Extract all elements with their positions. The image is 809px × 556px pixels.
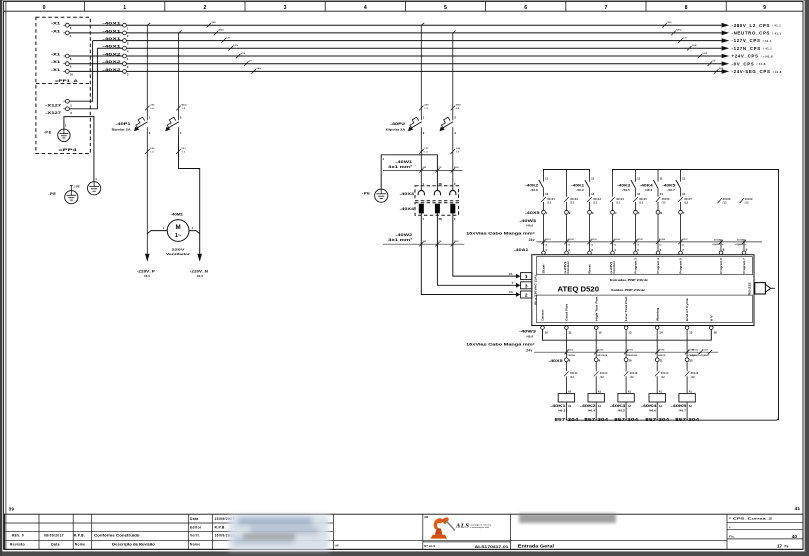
svg-text:montagens elétrica: montagens elétrica: [470, 523, 492, 526]
ground symbol PE right (wired): [88, 182, 101, 195]
wire number slashes group left (x 206-256): [207, 22, 262, 74]
svg-text:4: 4: [364, 5, 367, 11]
svg-text:40105: 40105: [637, 238, 644, 241]
cable core crossing input 2: [564, 238, 574, 246]
svg-text:40113: 40113: [630, 372, 638, 375]
svg-text:ATEQ D520: ATEQ D520: [558, 286, 600, 293]
relay coil -40K3 857-304: [610, 391, 639, 422]
svg-text:-40X1: -40X1: [102, 28, 122, 33]
svg-text:16xVias Cabo Manga mm²: 16xVias Cabo Manga mm²: [466, 231, 536, 235]
title block date / editor column: [190, 517, 235, 547]
wire tag 40103: [587, 197, 601, 210]
svg-text:12: 12: [598, 331, 602, 335]
svg-text:Entradas PNP 24Vdc: Entradas PNP 24Vdc: [610, 278, 648, 282]
block side vertical ratings text: [533, 275, 751, 305]
label -PE (enclosure): [44, 130, 52, 135]
svg-text:16xVias Cabo Manga mm²: 16xVias Cabo Manga mm²: [466, 343, 536, 347]
terminals -X127 with pin numbers: [45, 99, 72, 115]
wire bus L2 tap down to -40P2 pole 2: [453, 31, 456, 116]
ATEQ left power pin F1 (1): [509, 272, 532, 280]
terminal -40X5:3: [588, 210, 594, 251]
wire output 11 from pin to terminal: [565, 329, 567, 358]
svg-text:/40.8: /40.8: [531, 188, 539, 192]
ATEQ bottom pins 10-16: [541, 326, 717, 335]
wire tag below -40P1 pole 1: [145, 148, 155, 154]
svg-text:10: 10: [629, 358, 633, 362]
svg-text:-X127: -X127: [45, 110, 61, 115]
svg-text:40.0: 40.0: [197, 274, 203, 278]
wire tag 40114 lower: [655, 371, 669, 393]
terminal -40X5:4: [611, 210, 617, 251]
svg-text:BR/CNZA: BR/CNZA: [597, 354, 607, 357]
svg-text:40102: 40102: [568, 238, 575, 241]
ATEQ top pin 7: [679, 248, 685, 255]
svg-text:0: 0: [43, 5, 46, 11]
spare core tag 40109: [740, 198, 753, 205]
svg-text:40101: 40101: [545, 238, 552, 241]
svg-text:Nº ALS: Nº ALS: [424, 544, 435, 548]
svg-text:Program 5: Program 5: [679, 258, 683, 274]
svg-text:40116: 40116: [692, 349, 699, 352]
title block right column: [729, 517, 797, 549]
svg-text:/12: /12: [630, 376, 634, 379]
svg-text:R.P.B.: R.P.B.: [215, 526, 226, 530]
circuit breaker -40P1 pole 1 (pins 1-2): [134, 115, 151, 135]
svg-text:40104: 40104: [614, 238, 621, 241]
svg-text:40113: 40113: [627, 349, 634, 352]
svg-text:Reset: Reset: [588, 264, 592, 273]
terminal strip -40X4 (plug side): [400, 203, 459, 221]
svg-text:/40.3: /40.3: [558, 408, 566, 412]
svg-text:1.8: 1.8: [182, 108, 186, 110]
svg-text:-40X3: -40X3: [400, 192, 415, 196]
input common bus segment B (pins 4-7) to right drop: [613, 170, 779, 173]
svg-text:-40W3: -40W3: [519, 330, 536, 334]
relay return bus to right drop: [566, 417, 778, 420]
wire tag 40106: [656, 197, 670, 210]
svg-text:=PP4: =PP4: [59, 147, 78, 152]
drawing title cell: [518, 544, 554, 549]
wire right vertical drop to relay return bus: [778, 170, 780, 421]
wire tag below -40P2 pole 2: [451, 148, 461, 154]
page number 39 bottom left: [9, 506, 15, 511]
svg-text:NEU: NEU: [676, 30, 682, 32]
svg-text:2: 2: [203, 5, 206, 11]
svg-text:127: 127: [424, 148, 429, 150]
svg-text:40105: 40105: [639, 198, 647, 201]
svg-text:+24: +24: [241, 52, 246, 55]
svg-text:Conforme Construído: Conforme Construído: [94, 534, 140, 538]
relay contact -40K1 (11-14) on input 3: [571, 170, 594, 197]
svg-text:0V: 0V: [712, 61, 715, 63]
svg-text:11: 11: [591, 177, 594, 181]
svg-text:Ventilador: Ventilador: [166, 252, 191, 256]
svg-text:-40X1: -40X1: [102, 36, 122, 41]
svg-text:90 a 230VAC (1A): 90 a 230VAC (1A): [533, 275, 537, 305]
svg-text:17: 17: [777, 543, 782, 548]
svg-text:24v: 24v: [526, 349, 532, 353]
svg-text:40106: 40106: [662, 198, 670, 201]
svg-text:380: 380: [212, 22, 217, 24]
title block revision row texts: [10, 534, 155, 547]
svg-text:11: 11: [637, 177, 640, 181]
arrow -220V_N going down: [190, 254, 209, 278]
ATEQ left power pin F0 (2): [509, 290, 532, 298]
cable core crossing input 1: [541, 238, 551, 246]
svg-text:14: 14: [682, 192, 686, 196]
svg-text:Descrição da Revisão: Descrição da Revisão: [112, 543, 155, 547]
wire input common 4 from bus: [612, 170, 614, 197]
svg-text:Start: Start: [542, 264, 546, 273]
svg-text:13: 13: [628, 331, 632, 335]
svg-text:40117: 40117: [702, 349, 709, 352]
input pin function labels (vertical): [542, 258, 747, 274]
svg-text:11: 11: [660, 177, 663, 181]
wire -40P2 pole 2 down to -40X3:2: [452, 135, 454, 186]
svg-text:14: 14: [545, 192, 549, 196]
svg-text:Fls.: Fls.: [729, 535, 735, 539]
relay coil -40K4 857-304: [641, 391, 670, 422]
svg-text:-40K5: -40K5: [662, 183, 675, 187]
svg-text:Program 6: Program 6: [719, 258, 723, 274]
svg-text:/12: /12: [745, 202, 749, 205]
svg-text:(+24V): (+24V): [609, 262, 613, 274]
svg-text:-PE: -PE: [48, 191, 56, 196]
svg-text:Entrada Geral: Entrada Geral: [518, 544, 554, 549]
svg-text:-40X2: -40X2: [102, 59, 122, 64]
svg-text:0 V: 0 V: [709, 315, 713, 321]
svg-text:-220V_P: -220V_P: [137, 270, 156, 274]
svg-text:14: 14: [591, 192, 595, 196]
cable -40W3 line (output side): [534, 351, 718, 353]
svg-text:/12: /12: [616, 202, 620, 205]
svg-text:-PE: -PE: [362, 191, 370, 196]
svg-text:VERDE: VERDE: [567, 355, 575, 357]
svg-text:RS-232: RS-232: [748, 282, 752, 296]
svg-text:/12: /12: [691, 376, 695, 379]
wire tag 40112 lower: [594, 371, 608, 393]
wire -40P1 pole 2 down, jog right and down to arrow -220V_N: [179, 135, 200, 254]
terminal -40X5:9: [594, 358, 600, 371]
terminal -40X5:12: [685, 358, 693, 371]
svg-text:Good Part: Good Part: [565, 304, 569, 321]
svg-text:7: 7: [604, 5, 607, 11]
wire tag above -40P1 pole 1: [145, 105, 155, 111]
svg-text:PE: PE: [439, 167, 442, 169]
circuit breaker -40P2 pole 1 (pins 1-2): [408, 115, 425, 135]
terminal strip -40X3 (socket side): [400, 182, 459, 201]
svg-text:-40A1: -40A1: [514, 248, 529, 252]
relay coil -40K1 857-304: [550, 391, 579, 422]
terminal -40X5:8: [565, 358, 571, 371]
svg-text:40107: 40107: [682, 238, 689, 241]
ground symbol PE left (stub) with label -PE: [48, 185, 80, 204]
svg-text:8: 8: [685, 5, 688, 11]
svg-text:9: 9: [763, 5, 766, 11]
terminal -PE inside =PP4 with earth symbol: [58, 129, 70, 141]
svg-text:Common: Common: [541, 309, 545, 321]
svg-text:40109: 40109: [745, 198, 753, 201]
ATEQ top pin 2: [565, 248, 571, 255]
svg-text:-40X5: -40X5: [549, 359, 563, 363]
svg-text:Verif.: Verif.: [190, 534, 200, 538]
svg-text:14: 14: [660, 192, 664, 196]
spare output core tags: [690, 349, 712, 357]
svg-text:220V: 220V: [172, 247, 185, 251]
motor -40M1 (M 1~ 220V Ventilador): [147, 213, 199, 256]
svg-text:/40.4: /40.4: [588, 408, 596, 412]
svg-text:NEU: NEU: [219, 30, 225, 32]
svg-text:39: 39: [9, 506, 15, 511]
pneumatic connector on right side of block: [755, 283, 775, 294]
ATEQ top pin 1: [542, 248, 548, 255]
label -40P1 Bipolar 2A: [112, 122, 131, 131]
terminal -40X5:10: [624, 358, 632, 371]
svg-text:Revisão: Revisão: [10, 543, 25, 547]
svg-text:/12: /12: [661, 376, 665, 379]
wire tag 40102: [564, 197, 578, 210]
bus line destination labels: [732, 23, 782, 74]
wire number slashes group right (x 664-717): [662, 22, 723, 74]
svg-text:NEU: NEU: [456, 105, 461, 107]
block titles ATEQ D520 / Entradas / Saidas: [558, 278, 649, 294]
svg-text:/12: /12: [570, 376, 574, 379]
svg-text:F1: F1: [509, 272, 513, 276]
svg-text:+24V_CPS: +24V_CPS: [732, 54, 759, 59]
svg-text:REV. 0: REV. 0: [12, 534, 24, 538]
svg-text:127: 127: [226, 37, 231, 39]
svg-text:1~: 1~: [175, 233, 181, 239]
svg-text:380: 380: [424, 105, 429, 107]
arrow -220V_P going down: [137, 254, 156, 278]
svg-text:40102: 40102: [570, 198, 578, 201]
svg-text:12N: 12N: [692, 45, 697, 47]
wire bridge pin 10 Common to pin 16 0V: [543, 329, 712, 340]
svg-text:-40W3: -40W3: [519, 219, 536, 223]
svg-text:3x1 mm²: 3x1 mm²: [388, 165, 413, 169]
svg-text:/12: /12: [723, 202, 727, 205]
wire -X127:1 to bus -127V_CPS: [69, 41, 92, 102]
wire -X127:2 to bus -127N_CPS: [69, 48, 97, 109]
svg-text:2: 2: [525, 293, 528, 299]
svg-text:-X1: -X1: [51, 51, 61, 56]
svg-text:11: 11: [545, 177, 548, 181]
terminal -40X5:2: [565, 210, 571, 251]
svg-text:40103: 40103: [591, 238, 598, 241]
svg-text:12N: 12N: [456, 148, 461, 150]
wire bus line +24V_CPS: [67, 55, 722, 57]
svg-text:3: 3: [284, 5, 287, 11]
svg-text:40108: 40108: [723, 198, 731, 201]
cable -40W3 16 vias label (input side): [466, 219, 536, 242]
svg-text:127: 127: [683, 37, 688, 39]
svg-text:T: T: [512, 281, 514, 285]
svg-text:16: 16: [714, 331, 718, 335]
wire tag 40113 lower: [624, 371, 638, 393]
cable core crossing input 4: [610, 238, 620, 246]
wire bus line -NEUTRO_CPS: [67, 32, 722, 34]
svg-text:10: 10: [545, 331, 549, 335]
svg-text:NEU: NEU: [454, 241, 459, 243]
svg-text:R.P.B.: R.P.B.: [74, 534, 85, 538]
svg-text:Low Test Part: Low Test Part: [624, 296, 628, 321]
svg-text:10: 10: [70, 72, 74, 76]
svg-text:(+24V): (+24V): [563, 262, 567, 274]
svg-text:40112: 40112: [597, 349, 604, 352]
wire -40X4:PE to ATEQ pin T: [437, 215, 516, 285]
svg-text:-40X4: -40X4: [400, 207, 416, 211]
svg-text:AM/VD: AM/VD: [658, 354, 666, 357]
wire bus L2 tap down to -40P1 pole 2: [179, 31, 182, 116]
svg-text:/40.5: /40.5: [618, 408, 626, 412]
svg-text:08/09/2017: 08/09/2017: [44, 534, 64, 538]
svg-text:-127N_CPS: -127N_CPS: [732, 46, 761, 51]
svg-text:3x1 mm²: 3x1 mm²: [388, 238, 413, 242]
dashed enclosure =PP1_A / =PP4: [36, 17, 90, 153]
svg-text:Data: Data: [190, 517, 199, 521]
label -40A1: [514, 248, 529, 252]
svg-text:40107: 40107: [684, 198, 692, 201]
cable core crossing output 12: [594, 349, 608, 357]
relay contact -40K3 (11-14) on input 5: [617, 170, 640, 197]
input common bus segment A (pins 1-3): [544, 170, 590, 172]
terminal -40X5:11: [655, 358, 663, 371]
svg-text:ALS: ALS: [455, 523, 470, 530]
svg-text:ALS170417-01: ALS170417-01: [475, 545, 509, 549]
relay coil -40K5 857-304: [671, 391, 700, 422]
svg-text:6: 6: [524, 5, 527, 11]
svg-text:3: 3: [525, 283, 528, 289]
terminal -40X5:6: [656, 210, 662, 251]
svg-text:M: M: [176, 224, 181, 231]
wire tag below -40P1 pole 2: [176, 148, 186, 154]
wire bus line -380V_L2_CPS: [67, 24, 722, 26]
svg-text:/12: /12: [639, 202, 643, 205]
svg-text:-X1: -X1: [51, 21, 61, 26]
svg-text:-40X1: -40X1: [102, 21, 122, 26]
wire tag 40105: [633, 197, 647, 210]
title block cell N labels: [336, 544, 340, 548]
wire tag 40115 lower: [685, 371, 699, 393]
svg-text:Program 7: Program 7: [742, 258, 746, 274]
svg-text:-220V_N: -220V_N: [190, 270, 209, 274]
svg-text:1: 1: [525, 274, 528, 280]
svg-text:0V: 0V: [249, 61, 252, 63]
svg-text:Warning: Warning: [655, 307, 659, 321]
wire PE terminal to external ground, pin 1: [64, 117, 97, 182]
svg-text:-40K4: -40K4: [640, 183, 653, 187]
circuit breaker -40P2 pole 2 (pins 3-4): [440, 115, 457, 135]
label -40P2 Bipolar 2A: [386, 122, 405, 131]
svg-text:40106: 40106: [659, 238, 666, 241]
wire bus L1 tap down to -40P1 pole 1: [147, 23, 150, 115]
svg-text:High Test Part: High Test Part: [594, 296, 598, 321]
svg-text:40.0: 40.0: [144, 274, 150, 278]
wire -40X4:1 to ATEQ pin F0: [421, 215, 516, 294]
svg-text:40111: 40111: [570, 372, 578, 375]
wire -40P1 pole 1 down to arrow -220V_P: [146, 135, 148, 254]
ALS logo cell: [423, 515, 511, 549]
terminal strip -40X1 / -40X2 on bus lines: [102, 21, 129, 77]
svg-text:-40W1: -40W1: [396, 160, 413, 164]
page number 41 right: [794, 506, 800, 512]
svg-text:-40X1: -40X1: [102, 44, 122, 49]
terminal -40X5:7: [679, 210, 685, 251]
svg-text:F0: F0: [509, 290, 513, 294]
svg-text:-40W2: -40W2: [396, 233, 413, 237]
svg-text:-127V_CPS: -127V_CPS: [732, 38, 761, 43]
svg-text:/ 41.8: / 41.8: [773, 70, 782, 74]
svg-text:40103: 40103: [593, 198, 601, 201]
svg-text:End of Cycle: End of Cycle: [685, 298, 689, 321]
analyser -40A1 ATEQ D520 block outline: [532, 255, 754, 326]
svg-text:380: 380: [150, 105, 155, 107]
svg-text:Nº: Nº: [336, 544, 340, 548]
svg-text:1.0: 1.0: [424, 151, 428, 153]
svg-text:1.8: 1.8: [150, 108, 154, 110]
wire bus line -127N_CPS: [97, 47, 721, 49]
wire tag 40104: [610, 197, 624, 210]
svg-text:+0)(M011+-: +0)(M011+-: [735, 244, 747, 246]
wire bus line -0V_CPS: [67, 63, 722, 65]
svg-text:1.0: 1.0: [150, 151, 154, 153]
cable core crossing output 13: [624, 349, 637, 357]
ATEQ top pin 5: [634, 248, 640, 255]
svg-text:-40K1: -40K1: [571, 183, 584, 187]
svg-text:14: 14: [659, 331, 663, 335]
wire input common 2 from bus: [566, 170, 568, 197]
label -40X5 (output side): [549, 359, 563, 363]
cable core crossing output 11: [564, 349, 575, 357]
wire output 15 from pin to terminal: [686, 329, 688, 358]
cable core crossing input 7: [678, 238, 688, 246]
wire -40X4:2 to ATEQ pin F1: [453, 215, 516, 276]
svg-text:12: 12: [690, 358, 694, 362]
svg-text:24S: 24S: [256, 67, 261, 70]
wire output 12 from pin to terminal: [595, 329, 597, 358]
svg-text:380: 380: [667, 22, 672, 24]
ATEQ top pin 4: [611, 248, 617, 255]
arrow heads of bus lines leaving right: [722, 23, 730, 74]
wire tag above -40P1 pole 2: [176, 105, 187, 111]
svg-text:14: 14: [637, 192, 641, 196]
svg-text:24v: 24v: [529, 238, 535, 242]
cable core crossing input 5: [633, 238, 643, 246]
svg-text:/12: /12: [662, 202, 666, 205]
wire -40P2 pole 1 down to -40X3:1: [420, 135, 422, 186]
svg-text:MARROM: MARROM: [627, 354, 637, 357]
svg-text:/ 41.8: / 41.8: [757, 62, 766, 66]
svg-text:/12: /12: [547, 202, 551, 205]
ATEQ left power pin T (3): [512, 281, 532, 289]
svg-text:-40K3: -40K3: [617, 183, 630, 187]
wire tag 40101: [541, 197, 555, 210]
cable -40W3 16 vias label (output side): [466, 330, 536, 353]
svg-text:-380V_L2_CPS: -380V_L2_CPS: [732, 23, 771, 28]
cable core crossing output 15: [685, 349, 695, 357]
svg-text:/40.5: /40.5: [623, 188, 631, 192]
svg-text:-40X5: -40X5: [525, 211, 540, 215]
terminals -X1 with pin numbers: [51, 21, 73, 77]
label =PP1_A: [55, 78, 78, 83]
svg-text:220: 220: [150, 148, 155, 150]
wire tag above -40P2 pole 1: [419, 105, 429, 111]
relay contact -40K4 (11-14) on input 6: [640, 170, 663, 197]
svg-text:Data: Data: [51, 543, 60, 547]
svg-text:Program 3: Program 3: [634, 258, 638, 274]
svg-text:1: 1: [123, 5, 126, 11]
svg-text:NEU: NEU: [182, 105, 187, 107]
